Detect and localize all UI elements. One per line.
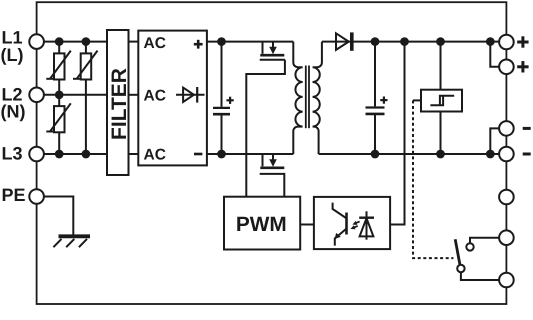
junction L1 varistor A [55, 37, 64, 46]
junction L1 varistor B [82, 37, 91, 46]
wire filter-rectifier top [129, 41, 139, 43]
junction output cap - [371, 150, 380, 159]
junction comparator - [436, 150, 445, 159]
junction comparator + [436, 37, 445, 46]
junction L3 varistor A [55, 150, 64, 159]
junction L2 varistor [55, 90, 64, 99]
wire output + rail [322, 41, 500, 43]
junction + jog [486, 37, 495, 46]
wire PWM to optocoupler [300, 224, 314, 226]
PWM controller U2 [224, 197, 300, 250]
junction L3 varistor B [82, 150, 91, 159]
terminal L3 [29, 147, 44, 162]
label output -1 [523, 127, 531, 130]
junction - jog [486, 150, 495, 159]
wire L1 input [43, 41, 107, 43]
diode inside rectifier [176, 87, 205, 103]
wire L3 input [43, 153, 107, 155]
diode D2 output [336, 32, 352, 50]
varistor RV2 (L1-L3) [73, 42, 98, 154]
label output +1 [517, 36, 528, 47]
transformer T1 primary [293, 42, 302, 154]
transformer T1 secondary [313, 42, 322, 154]
wire - to third terminal [490, 128, 499, 154]
label output +2 [517, 61, 528, 72]
terminal +1 [499, 35, 514, 50]
wire comparator top [440, 42, 442, 90]
terminal relay NO bottom [499, 273, 514, 288]
label output -2 [523, 153, 531, 156]
terminal -1 [499, 121, 514, 136]
junction DC+ cap [217, 37, 226, 46]
wire Q2 gate to PWM [260, 174, 285, 197]
svg-text:(L): (L) [1, 45, 24, 65]
varistor RV3 (L2-L3) [46, 95, 71, 154]
svg-text:L3: L3 [2, 144, 23, 164]
terminal L1 [29, 34, 44, 49]
wire Q1 gate to PWM [246, 60, 285, 197]
wire L2 input [43, 94, 107, 96]
svg-text:PE: PE [2, 185, 26, 205]
optocoupler U3 [314, 197, 390, 249]
terminal PE [29, 189, 44, 204]
svg-text:AC: AC [144, 35, 166, 52]
terminal L2 [29, 88, 44, 103]
wire comparator bottom [440, 112, 442, 155]
wire filter-rectifier bottom [129, 153, 139, 155]
wire dashed DC-OK to relay [413, 100, 453, 258]
terminal -2 [499, 147, 514, 162]
terminal +2 [499, 60, 514, 75]
EMI filter block [107, 30, 131, 175]
transformer T1 core [306, 66, 309, 129]
ground PE symbol [53, 236, 90, 247]
junction DC- cap [217, 150, 226, 159]
rectifier block [138, 31, 207, 166]
svg-text:AC: AC [144, 87, 166, 104]
terminal relay NO top [499, 230, 514, 245]
comparator U4 DC-OK [413, 90, 462, 112]
wire + to second terminal [490, 42, 499, 67]
capacitor C2 output [366, 42, 388, 154]
wire PE to ground [43, 197, 73, 235]
svg-text:(N): (N) [1, 101, 26, 121]
svg-text:FILTER: FILTER [108, 68, 131, 140]
wire output - rail [319, 153, 500, 155]
transistor Q1 top MOSFET [260, 42, 285, 60]
relay contact K1 [455, 238, 499, 280]
varistor RV1 (L1-L2) [46, 42, 71, 95]
junction feedback tap + [400, 37, 409, 46]
wire DC- rail [207, 153, 293, 155]
wire DC+ rail [207, 41, 293, 43]
wire feedback + to optocoupler [390, 42, 405, 225]
terminal spare [499, 190, 514, 205]
wire filter-rectifier mid [129, 94, 139, 96]
junction output cap + [371, 37, 380, 46]
capacitor C1 bulk [213, 42, 234, 154]
svg-text:AC: AC [144, 147, 166, 164]
transistor Q2 bottom MOSFET [260, 154, 284, 168]
svg-text:PWM: PWM [236, 213, 287, 236]
